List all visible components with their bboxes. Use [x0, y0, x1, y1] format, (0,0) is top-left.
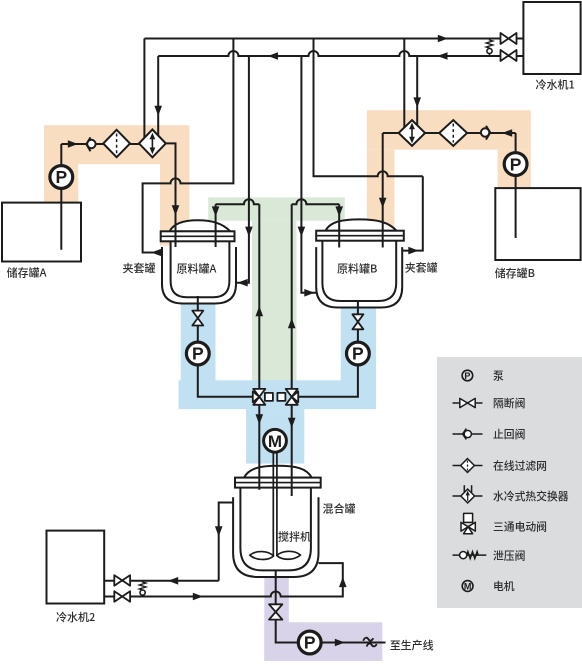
svg-text:原料罐B: 原料罐B	[337, 261, 377, 277]
vessel: raw material tank B body	[322, 241, 396, 301]
svg-text:混合罐: 混合罐	[323, 501, 356, 517]
heat exchanger HX-B	[399, 120, 426, 146]
check valve CV-B	[481, 126, 490, 140]
arrow: recirculation A up	[256, 306, 264, 316]
highlight band: transfer path to mixer (blue)	[179, 302, 377, 464]
wire: HX-A coolant return riser	[143, 39, 145, 139]
pump P4 (vessel B transfer)	[347, 342, 370, 365]
pump P5 (product)	[298, 631, 321, 654]
svg-text:冷水机1: 冷水机1	[536, 77, 575, 93]
equipment: chiller 1 box	[523, 2, 580, 74]
vessel: raw material tank B jacket	[316, 247, 402, 307]
wire: HX-B coolant supply drop	[416, 56, 418, 128]
wire: pump B suction riser and dip tube	[515, 133, 517, 238]
vessel: raw material tank A dome	[170, 220, 231, 231]
arrow: mixer jacket supply right	[193, 593, 203, 601]
wire: three-way valve B feed drop to mixer	[291, 405, 293, 496]
wire: jacket A coolant outlet	[143, 39, 234, 253]
arrow: mixer jacket return left	[168, 577, 178, 585]
wire: HX-A coolant supply drop	[157, 56, 159, 139]
svg-text:P: P	[55, 167, 67, 187]
equipment: chiller 2 box	[47, 531, 105, 604]
arrow: product line right	[335, 639, 345, 647]
svg-text:P: P	[192, 344, 204, 364]
arrow: jacket B supply down	[298, 227, 306, 237]
arrow: mixer jacket return down	[215, 526, 223, 536]
svg-text:储存罐A: 储存罐A	[7, 265, 47, 281]
check valve CV-A	[86, 137, 95, 151]
vessel: mixing tank body	[240, 488, 311, 571]
arrow: h1 flow right	[438, 35, 448, 43]
svg-text:电机: 电机	[493, 578, 515, 594]
vessel: raw material tank A body	[171, 241, 230, 297]
arrow: recirculation A drop down	[212, 206, 220, 216]
wire: jacket B coolant outlet	[314, 39, 423, 251]
heat exchanger HX-A	[139, 130, 166, 158]
svg-text:P: P	[464, 371, 470, 381]
legend symbol: isolation valve	[453, 398, 483, 407]
legend symbol: relief valve	[453, 552, 487, 559]
pump P1 (storage tank A)	[50, 166, 73, 189]
arrow: jacket A outlet left	[151, 249, 161, 257]
valve V5 mixer outlet	[269, 604, 282, 619]
svg-text:泄压阀: 泄压阀	[493, 548, 525, 564]
arrow: HX-B supply down	[413, 97, 421, 107]
vessel: raw material tank B flange	[316, 231, 404, 241]
vessel: mixing tank dome	[244, 466, 312, 478]
arrow: mixer feed B down	[288, 418, 296, 428]
wire: pump A suction riser and dip tube	[60, 144, 62, 250]
wire: three-way valve A feed drop to mixer	[258, 405, 260, 490]
wire: feed B horizontal run HX to tankB pump	[383, 132, 516, 134]
svg-text:M: M	[268, 432, 282, 451]
valve V6 chiller2 return isolation	[114, 575, 130, 586]
valve V3 vessel A outlet	[192, 311, 203, 326]
svg-text:原料罐A: 原料罐A	[177, 261, 217, 277]
wire: jacket B coolant inlet drop	[301, 56, 316, 293]
arrow: mixer jacket supply up	[339, 577, 347, 587]
wire: recirculation B riser and return	[292, 199, 340, 389]
svg-text:至生产线: 至生产线	[390, 637, 434, 653]
svg-text:止回阀: 止回阀	[493, 426, 525, 442]
arrow: mixer feed A down	[256, 414, 264, 424]
wire: vessel B outlet to three-way valve B	[292, 301, 358, 397]
inline filter F-A	[103, 130, 130, 157]
arrow: recirculation B up	[288, 318, 296, 328]
svg-text:P: P	[304, 633, 316, 653]
highlight band: product line (purple)	[264, 573, 382, 661]
wire: vessel A outlet to three-way valve A	[198, 296, 259, 397]
svg-text:冷水机2: 冷水机2	[56, 609, 95, 625]
wire: feed A horizontal run tankA pump to HX	[61, 143, 139, 145]
arrow: HX-A supply down	[154, 106, 162, 116]
wire: mixer outlet line to product pump	[276, 570, 386, 643]
vessel: mixing tank flange	[235, 478, 321, 488]
wire: HX-B coolant return riser	[403, 39, 405, 130]
inline filter F-B	[439, 120, 467, 146]
arrow: feed B left	[502, 129, 512, 137]
vessel: raw material tank A flange	[161, 231, 235, 241]
arrow: feed B drop down	[379, 198, 387, 208]
svg-text:M: M	[464, 581, 472, 591]
relief valve RV1 between headers	[486, 39, 493, 57]
legend symbol: inline filter	[453, 459, 483, 473]
arrow: jacket B outlet right	[408, 247, 418, 255]
pump P3 (vessel A transfer)	[186, 342, 209, 365]
arrow: h2 flow left mid	[268, 52, 278, 60]
arrow: feed A drop down	[172, 205, 180, 215]
highlight band: feed path A (orange)	[44, 125, 189, 245]
arrow: h2 flow left near chiller	[437, 52, 447, 60]
valve V2 chiller1 supply isolation valve	[501, 50, 517, 61]
arrow: feed A right	[68, 140, 78, 148]
arrow: jacket A supply down	[245, 227, 253, 237]
svg-text:夹套罐: 夹套罐	[405, 260, 438, 276]
valve V1 chiller1 return isolation valve	[501, 33, 517, 44]
svg-text:三通电动阀: 三通电动阀	[493, 519, 547, 535]
vessel: mixing tank jacket	[233, 497, 318, 577]
arrow: recirculation B drop down	[335, 206, 343, 216]
wire: recirculation A riser and return	[216, 199, 260, 389]
valve V7 chiller2 supply isolation	[114, 591, 130, 602]
motor M agitator drive	[264, 429, 287, 556]
legend symbol: check valve	[453, 429, 483, 440]
agitator impeller	[250, 551, 301, 559]
svg-text:在线过滤网: 在线过滤网	[493, 458, 547, 474]
legend box background	[437, 357, 582, 608]
svg-text:隔断阀: 隔断阀	[493, 395, 525, 411]
wire: feed B drop into vessel B	[382, 133, 384, 248]
legend symbol: three-way motor valve	[461, 513, 475, 533]
valve V4 vessel B outlet	[352, 314, 363, 329]
wire: chiller1 return header h1	[144, 38, 523, 40]
pipe break symbol on product line	[363, 638, 376, 647]
vessel: raw material tank B dome	[326, 219, 397, 230]
svg-text:搅拌机: 搅拌机	[278, 529, 311, 545]
wire: chiller1 supply header h2 with jumps	[158, 51, 523, 56]
svg-text:泵: 泵	[493, 368, 504, 384]
svg-text:储存罐B: 储存罐B	[495, 265, 535, 281]
svg-text:夹套罐: 夹套罐	[123, 260, 156, 276]
legend symbol: pump	[462, 370, 473, 381]
three-way motor valve TV-A	[253, 389, 273, 405]
svg-text:P: P	[352, 344, 364, 364]
arrow: jacket A inlet left	[238, 279, 248, 287]
arrow: jacket B inlet right	[304, 289, 314, 297]
wire: mixer jacket coolant supply from chiller2	[104, 563, 343, 596]
svg-text:P: P	[510, 154, 522, 174]
tank: storage tank B	[495, 188, 580, 260]
highlight band: recirculation path (green)	[208, 197, 345, 380]
legend symbol: motor	[462, 581, 473, 592]
vessel: raw material tank A jacket	[162, 247, 236, 304]
wire: jacket A coolant inlet drop	[236, 56, 249, 283]
pump P2 (storage tank B)	[504, 153, 527, 176]
three-way motor valve TV-B	[277, 389, 298, 405]
legend symbol: water cooled heat exchanger	[453, 485, 483, 503]
wire: feed A drop into vessel A	[166, 143, 176, 247]
highlight band: feed path B (orange)	[367, 110, 531, 232]
tank: storage tank A	[2, 203, 81, 262]
wire: mixer jacket coolant return to chiller2	[104, 503, 233, 581]
svg-text:水冷式热交换器: 水冷式热交换器	[493, 488, 569, 504]
junction arrows on pipes	[68, 35, 512, 647]
relief valve RV2 chiller2 bypass	[139, 581, 146, 597]
